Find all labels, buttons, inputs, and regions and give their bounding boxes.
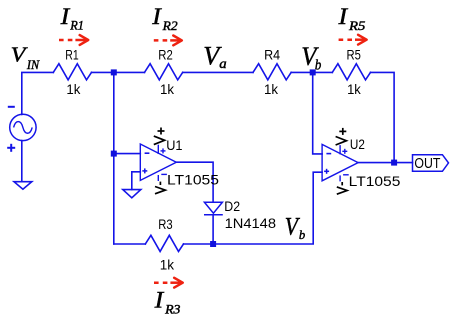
U1 supply minus marker (blue) xyxy=(161,173,167,175)
op-amp U2 xyxy=(322,144,358,181)
svg-text:R2: R2 xyxy=(158,47,173,63)
OUT port flag xyxy=(413,155,449,172)
current arrow I_R5 xyxy=(339,35,367,45)
resistor R2 xyxy=(145,64,183,80)
U2 V- pin label (rotated V-) xyxy=(337,182,347,194)
resistor R3 xyxy=(145,235,183,251)
U1 V+ power stub xyxy=(157,145,159,154)
bottom node junction (R3/D2) xyxy=(210,241,216,247)
svg-text:R3: R3 xyxy=(158,216,173,232)
svg-text:R4: R4 xyxy=(264,47,280,63)
wire R1 to node A xyxy=(92,71,145,73)
svg-text:1k: 1k xyxy=(160,256,175,272)
wire node A branch to U1 inverting input xyxy=(114,153,141,155)
svg-text:LT1055: LT1055 xyxy=(167,173,219,188)
wire R2 to R4 (node Va) xyxy=(183,71,253,73)
current arrow I_R3 xyxy=(154,278,183,288)
svg-text:1k: 1k xyxy=(347,81,362,97)
wire bottom rail through R3 region xyxy=(114,243,146,245)
wire U2 output to OUT flag xyxy=(358,162,412,164)
U2 supply minus marker (blue) xyxy=(343,174,349,176)
svg-text:I: I xyxy=(151,4,162,30)
ground (below source) xyxy=(14,182,32,190)
U2 supply plus marker (blue) xyxy=(342,149,347,154)
node Vb junction (top) xyxy=(310,69,316,75)
wire source bottom to ground xyxy=(21,141,23,182)
U2 V+ power stub xyxy=(339,145,341,154)
svg-text:b: b xyxy=(315,58,321,74)
svg-text:R2: R2 xyxy=(162,19,179,33)
ground (U1 noninverting input) xyxy=(123,190,141,198)
svg-text:1k: 1k xyxy=(160,81,175,97)
U1 noninverting input plus mark xyxy=(142,168,147,173)
resistor R1 xyxy=(53,64,91,80)
svg-text:U1: U1 xyxy=(166,138,182,153)
U1 supply plus marker (blue) xyxy=(161,148,166,153)
svg-text:I: I xyxy=(154,288,165,314)
svg-text:LT1055: LT1055 xyxy=(349,174,401,189)
svg-text:OUT: OUT xyxy=(414,156,440,172)
svg-text:R3: R3 xyxy=(164,303,180,317)
wire R5 to feedback corner xyxy=(371,72,395,162)
node A branch junction (U1 input) xyxy=(111,151,117,157)
current arrow I_R2 xyxy=(154,36,182,46)
svg-text:1k: 1k xyxy=(264,81,279,97)
voltage source V_IN xyxy=(10,114,36,140)
U2 V- power stub xyxy=(339,175,341,181)
svg-text:1N4148: 1N4148 xyxy=(225,216,277,232)
resistor R4 xyxy=(253,64,291,80)
svg-text:IN: IN xyxy=(26,57,40,72)
wire U1 noninverting input to ground xyxy=(132,172,141,190)
svg-text:R5: R5 xyxy=(347,46,362,62)
svg-text:a: a xyxy=(219,56,227,71)
svg-text:R1: R1 xyxy=(65,47,79,63)
wire node Vb down to U2 inverting input xyxy=(313,72,322,153)
voltage source minus sign xyxy=(8,106,15,108)
U2 inverting input minus mark xyxy=(326,153,331,155)
U2 V+ pin label (rotated V+) xyxy=(336,128,347,145)
svg-text:I: I xyxy=(60,4,71,30)
svg-text:b: b xyxy=(299,227,306,242)
output node junction xyxy=(391,160,397,166)
wire R4 to node Vb xyxy=(291,71,332,73)
U2 noninverting input plus mark xyxy=(324,169,329,174)
U1 V- power stub xyxy=(157,175,159,181)
svg-text:U2: U2 xyxy=(350,137,365,152)
current arrow I_R1 xyxy=(59,35,88,45)
op-amp U1 xyxy=(140,144,176,181)
wire node A down to bottom rail xyxy=(113,72,115,244)
wire VIN top corner to R1 xyxy=(22,72,54,114)
svg-text:1k: 1k xyxy=(66,81,81,97)
U1 V- pin label (rotated V-) xyxy=(155,182,165,194)
node A junction (after R1) xyxy=(111,69,117,75)
svg-text:D2: D2 xyxy=(224,199,240,215)
wire D2 cathode to bottom node xyxy=(212,215,214,244)
resistor R5 xyxy=(332,64,370,80)
diode D2 xyxy=(204,202,223,215)
wire U1 output to diode D2 anode xyxy=(176,162,213,202)
svg-text:R1: R1 xyxy=(69,19,84,33)
svg-text:R5: R5 xyxy=(348,19,366,33)
svg-text:I: I xyxy=(337,4,348,30)
voltage source plus sign xyxy=(7,144,15,152)
U1 inverting input minus mark xyxy=(145,152,150,154)
U1 V+ pin label (rotated V+) xyxy=(154,128,165,145)
wire R3 to bottom corner xyxy=(184,172,323,244)
